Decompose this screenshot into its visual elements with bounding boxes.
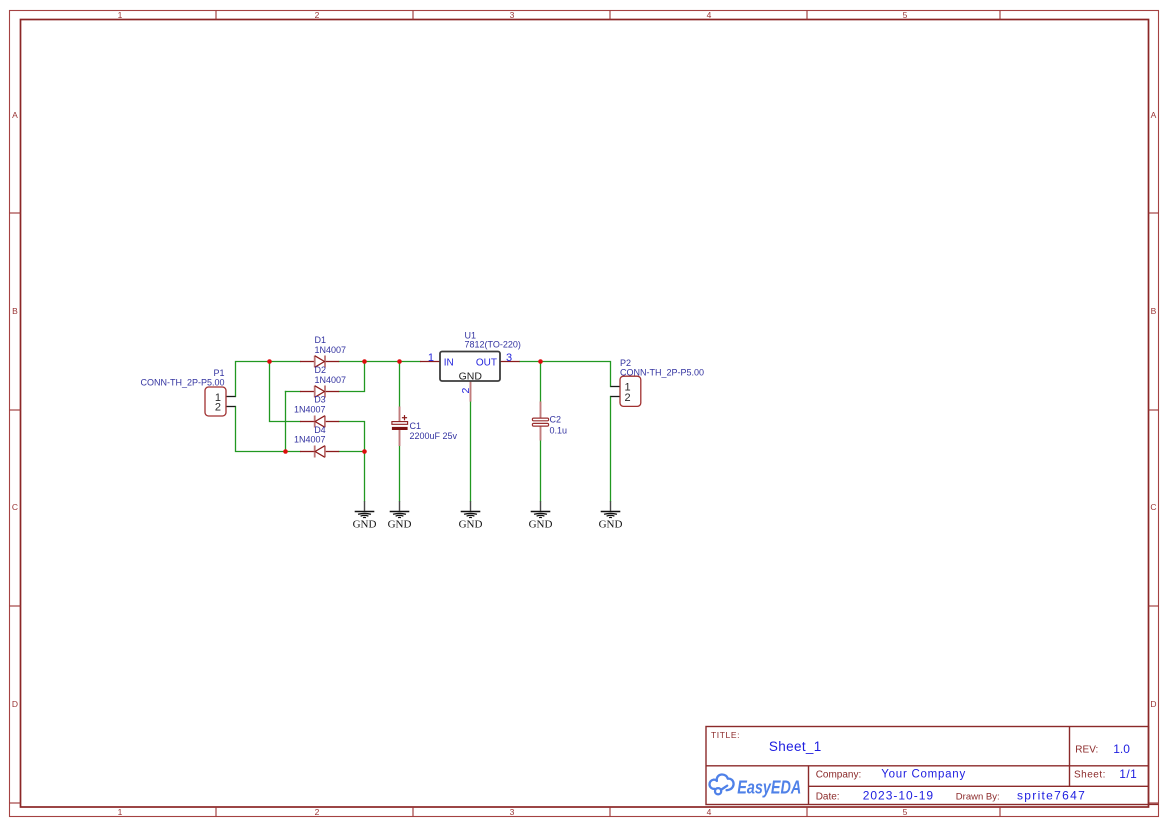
svg-text:5: 5 bbox=[903, 10, 908, 20]
svg-text:5: 5 bbox=[903, 807, 908, 817]
svg-text:sprite7647: sprite7647 bbox=[1017, 789, 1086, 803]
svg-text:C: C bbox=[12, 502, 18, 512]
svg-text:1N4007: 1N4007 bbox=[294, 435, 326, 445]
svg-text:C1: C1 bbox=[410, 421, 422, 431]
svg-text:4: 4 bbox=[707, 10, 712, 20]
svg-text:D2: D2 bbox=[315, 365, 327, 375]
svg-text:C2: C2 bbox=[550, 414, 562, 424]
svg-text:Sheet:: Sheet: bbox=[1074, 770, 1106, 781]
svg-text:Sheet_1: Sheet_1 bbox=[769, 739, 822, 754]
svg-text:2: 2 bbox=[624, 392, 630, 404]
svg-text:1N4007: 1N4007 bbox=[315, 375, 347, 385]
svg-text:B: B bbox=[1151, 306, 1157, 316]
svg-text:1N4007: 1N4007 bbox=[294, 405, 326, 415]
svg-text:B: B bbox=[12, 306, 18, 316]
svg-text:4: 4 bbox=[707, 807, 712, 817]
svg-text:A: A bbox=[1151, 110, 1157, 120]
svg-text:A: A bbox=[12, 110, 18, 120]
svg-text:2: 2 bbox=[315, 10, 320, 20]
svg-text:1/1: 1/1 bbox=[1119, 767, 1137, 781]
svg-text:3: 3 bbox=[510, 10, 515, 20]
svg-text:2: 2 bbox=[460, 388, 472, 394]
svg-text:2200uF 25v: 2200uF 25v bbox=[410, 431, 458, 441]
svg-text:D3: D3 bbox=[314, 395, 326, 405]
svg-text:REV:: REV: bbox=[1075, 745, 1098, 756]
svg-text:Date:: Date: bbox=[816, 791, 840, 802]
svg-text:C: C bbox=[1150, 502, 1156, 512]
svg-text:EasyEDA: EasyEDA bbox=[737, 778, 801, 798]
svg-text:7812(TO-220): 7812(TO-220) bbox=[465, 340, 521, 350]
svg-text:Company:: Company: bbox=[816, 769, 862, 780]
svg-text:1.0: 1.0 bbox=[1113, 742, 1130, 756]
svg-text:D: D bbox=[1150, 699, 1156, 709]
svg-text:3: 3 bbox=[506, 352, 512, 364]
svg-text:1: 1 bbox=[118, 807, 123, 817]
svg-text:2: 2 bbox=[215, 402, 221, 414]
svg-text:1N4007: 1N4007 bbox=[315, 345, 347, 355]
svg-text:TITLE:: TITLE: bbox=[711, 730, 740, 740]
svg-text:Your Company: Your Company bbox=[881, 769, 966, 781]
svg-text:Drawn By:: Drawn By: bbox=[956, 791, 1000, 802]
svg-text:OUT: OUT bbox=[476, 357, 497, 368]
svg-text:2023-10-19: 2023-10-19 bbox=[863, 789, 934, 803]
svg-text:1: 1 bbox=[118, 10, 123, 20]
svg-text:1: 1 bbox=[428, 352, 434, 364]
svg-text:GND: GND bbox=[459, 371, 483, 383]
svg-text:CONN-TH_2P-P5.00: CONN-TH_2P-P5.00 bbox=[140, 378, 224, 388]
svg-text:CONN-TH_2P-P5.00: CONN-TH_2P-P5.00 bbox=[620, 368, 704, 378]
svg-text:3: 3 bbox=[510, 807, 515, 817]
svg-text:D: D bbox=[12, 699, 18, 709]
svg-text:P1: P1 bbox=[213, 368, 224, 378]
svg-text:IN: IN bbox=[444, 357, 454, 368]
svg-text:P2: P2 bbox=[620, 358, 631, 368]
svg-text:0.1u: 0.1u bbox=[550, 426, 568, 436]
svg-text:2: 2 bbox=[315, 807, 320, 817]
svg-text:D1: D1 bbox=[315, 335, 327, 345]
